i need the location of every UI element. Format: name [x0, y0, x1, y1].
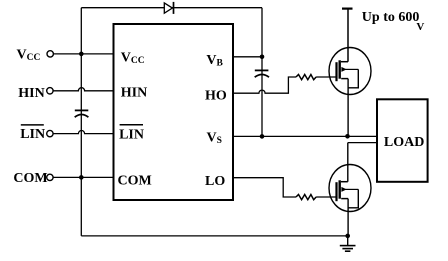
terminal COM — [13, 171, 53, 186]
svg-text:LO: LO — [205, 174, 225, 189]
wire LOAD lower branch — [348, 142, 377, 144]
svg-text:V: V — [416, 21, 424, 33]
wire Q2 drain — [347, 143, 349, 182]
svg-text:HO: HO — [205, 89, 227, 104]
wire LIN input (hops left bus) — [53, 131, 113, 134]
transistor Q1 (high-side MOSFET) — [329, 48, 371, 95]
ground — [340, 236, 356, 251]
wire R1 to Q1 gate — [316, 76, 336, 78]
svg-text:Up to 600: Up to 600 — [362, 10, 420, 25]
node VB junction — [260, 55, 265, 60]
node switch junction — [345, 134, 350, 139]
capacitor C1 (bootstrap) — [255, 70, 269, 77]
node VCC junction — [79, 52, 84, 57]
wire top rail — [81, 7, 262, 9]
capacitor C2 (VCC decoupling) — [75, 110, 89, 117]
terminal HV supply bar — [342, 8, 353, 10]
node COM junction — [79, 175, 84, 180]
wire HV to Q1 drain — [347, 9, 349, 62]
wire LO pin to R2 — [233, 178, 296, 197]
load box — [377, 99, 428, 182]
svg-text:HIN: HIN — [18, 86, 44, 101]
wire Q2 source to ground — [347, 199, 349, 236]
wire bootstrap vertical — [261, 8, 263, 137]
svg-text:LIN: LIN — [119, 127, 144, 142]
svg-text:VCC: VCC — [121, 50, 145, 66]
terminal LIN — [20, 125, 53, 142]
diode D1 (bootstrap) — [164, 2, 173, 14]
svg-text:COM: COM — [118, 173, 152, 188]
svg-text:HIN: HIN — [121, 86, 147, 101]
svg-text:VB: VB — [206, 53, 223, 69]
node ground junction — [345, 234, 350, 239]
transistor Q2 (low-side MOSFET) — [329, 165, 371, 212]
text Up to 600 V — [362, 10, 425, 33]
svg-text:VCC: VCC — [17, 48, 41, 64]
op-amp U1 gate driver IC body — [114, 24, 234, 200]
wire Q1 source to switch node — [347, 79, 349, 137]
svg-text:COM: COM — [13, 171, 47, 186]
resistor R2 (low-side gate) — [296, 195, 316, 200]
node VS junction — [260, 134, 265, 139]
wire HO pin (hops bootstrap vertical) — [233, 77, 296, 93]
resistor R1 (high-side gate) — [296, 75, 316, 80]
svg-text:LIN: LIN — [20, 127, 45, 142]
wire VCC input — [54, 53, 114, 55]
svg-text:VS: VS — [207, 131, 222, 147]
svg-text:LOAD: LOAD — [384, 135, 424, 150]
wire VB pin — [233, 56, 262, 58]
terminal HIN — [18, 86, 53, 101]
wire COM input — [53, 176, 113, 178]
wire R2 to Q2 gate — [316, 196, 336, 198]
terminal VCC — [17, 48, 54, 64]
wire left vertical bus — [80, 8, 82, 236]
wire VS pin to LOAD — [233, 135, 377, 137]
pin label LIN — [119, 125, 144, 143]
wire ground bus — [81, 235, 347, 237]
wire HIN input (hops left bus) — [53, 88, 113, 91]
